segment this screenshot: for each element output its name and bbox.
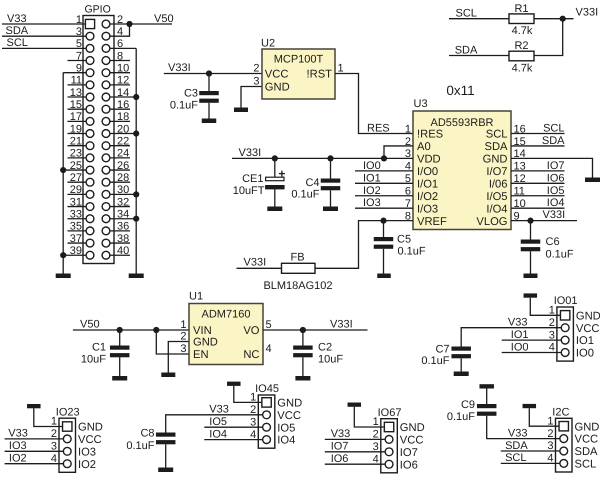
svg-text:GND: GND xyxy=(576,310,600,322)
FB designator xyxy=(290,252,304,264)
C4 designator xyxy=(305,177,319,189)
U3 pin number 5 xyxy=(405,173,411,185)
wire GPIO pin 6 to right ground bus xyxy=(106,47,136,49)
svg-text:29: 29 xyxy=(70,184,82,196)
net label SDA xyxy=(6,25,29,37)
wire IO5 from U3 xyxy=(511,195,565,197)
U1 pin name NC xyxy=(243,349,259,361)
ferrite bead FB xyxy=(282,263,316,273)
IC U3 body AD5593RBR xyxy=(413,111,511,230)
ground U3 GND xyxy=(585,178,600,183)
GPIO pin number 40 xyxy=(117,245,129,257)
svg-text:38: 38 xyxy=(117,233,129,245)
wire U2 GND to ground xyxy=(241,87,262,108)
ground U1 GND xyxy=(161,373,175,378)
net label V33 (IO01) xyxy=(508,317,528,329)
svg-text:IO2: IO2 xyxy=(363,185,381,197)
net label IO1 xyxy=(363,172,381,184)
C9 value 0.1uF xyxy=(447,411,475,423)
svg-text:4: 4 xyxy=(373,453,379,465)
wire stub GPIO pin 13 xyxy=(68,96,91,98)
U2 pin name GND xyxy=(265,82,290,94)
net label SCL (U3) xyxy=(543,123,564,135)
svg-text:7: 7 xyxy=(76,50,82,62)
IO23 pin 3 pad xyxy=(63,447,71,455)
svg-text:2: 2 xyxy=(51,428,57,440)
U1 pin number 4 xyxy=(266,343,272,355)
address label 0x11 xyxy=(446,83,474,98)
IO23 pin 1 (square pad) xyxy=(63,422,72,431)
net label SDA (I2C) xyxy=(505,440,528,452)
GPIO pin number 25 xyxy=(70,160,82,172)
svg-text:IO2: IO2 xyxy=(78,459,96,471)
GPIO pin number 16 xyxy=(117,99,129,111)
svg-text:CE1: CE1 xyxy=(242,173,263,185)
GPIO pin number 20 xyxy=(117,123,129,135)
junction EN tap xyxy=(153,327,159,333)
svg-text:VCC: VCC xyxy=(265,69,289,81)
GPIO pin number 21 xyxy=(70,136,82,148)
C1 value 10uF xyxy=(81,354,106,366)
wire V33 to IO01 pin2 and C7 xyxy=(461,328,561,347)
svg-text:GND: GND xyxy=(277,398,302,410)
IO01 pin number 3 xyxy=(549,329,555,341)
svg-text:VCC: VCC xyxy=(575,434,599,446)
svg-text:IO0: IO0 xyxy=(576,348,594,360)
U3 pin number 10 xyxy=(514,198,526,210)
svg-text:IO5: IO5 xyxy=(277,422,295,434)
svg-text:SCL: SCL xyxy=(505,452,526,464)
svg-text:4.7k: 4.7k xyxy=(512,62,533,74)
svg-text:0.1uF: 0.1uF xyxy=(546,249,574,261)
wire GPIO pin 25 to left ground bus xyxy=(63,169,90,171)
GPIO pin number 36 xyxy=(117,221,129,233)
I2C pin number 3 xyxy=(547,440,553,452)
svg-text:0x11: 0x11 xyxy=(446,83,474,98)
ground U2 GND xyxy=(234,108,248,113)
svg-text:IO4: IO4 xyxy=(547,197,565,209)
wire IO2 to U3 xyxy=(355,195,413,197)
net label IO7 (IO67) xyxy=(331,441,349,453)
GPIO pin number 18 xyxy=(117,111,129,123)
svg-text:NC: NC xyxy=(243,349,259,361)
net label IO0 xyxy=(363,160,381,172)
net label IO6 xyxy=(547,172,565,184)
wire stub GPIO pin 38 xyxy=(106,242,130,244)
svg-text:MCP100T: MCP100T xyxy=(274,54,324,66)
GPIO pin 38 pad xyxy=(102,239,110,247)
IO01 pin 2 pad xyxy=(561,324,569,332)
GPIO pin 18 pad xyxy=(102,117,110,125)
wire GPIO pin 34 to right ground bus xyxy=(106,218,136,220)
U3 pin number 12 xyxy=(514,173,526,185)
GPIO pin 4 pad xyxy=(102,32,110,40)
GPIO pin number 13 xyxy=(70,87,82,99)
wire IO4 to IO45 pin4 xyxy=(204,439,262,441)
wire V33I to FB xyxy=(237,267,282,269)
wire stub GPIO pin 35 xyxy=(68,230,91,232)
svg-text:V33I: V33I xyxy=(244,257,267,269)
svg-text:13: 13 xyxy=(70,87,82,99)
GPIO pin 3 pad xyxy=(86,32,94,40)
GPIO pin 2 pad xyxy=(102,20,110,28)
svg-text:1: 1 xyxy=(547,415,553,427)
connector IO45 body xyxy=(258,395,275,448)
junction right bus pin 20 xyxy=(133,130,139,136)
IO23 pin 4 pad xyxy=(63,460,71,468)
wire V33 to GPIO pin 1 xyxy=(2,23,90,25)
junction A0/VDD xyxy=(381,155,387,161)
C5 value 0.1uF xyxy=(398,246,426,258)
U1 pin number 3 xyxy=(180,343,186,355)
wire stub GPIO pin 21 xyxy=(68,145,91,147)
net label V33I (FB) xyxy=(244,257,267,269)
net label IO6 (IO67) xyxy=(331,453,349,465)
GPIO pin 37 pad xyxy=(86,239,94,247)
net label V33 xyxy=(7,13,27,25)
C6 designator xyxy=(546,236,560,248)
GPIO pin number 4 xyxy=(117,26,123,38)
IO67 pin number 1 xyxy=(373,416,379,428)
U1 pin name GND xyxy=(193,337,218,349)
GPIO pin 24 pad xyxy=(102,154,110,162)
wire SCL to I2C pin4 xyxy=(501,462,560,464)
net label V33I (pullups) xyxy=(576,7,599,19)
R2 value 4.7k xyxy=(512,62,533,74)
wire I2C pin1 to ground xyxy=(529,408,559,426)
supervisor U2 body xyxy=(262,49,335,99)
junction right bus pin 34 xyxy=(133,216,139,222)
IO45 pin label IO5 xyxy=(277,422,295,434)
wire IO0 to U3 xyxy=(355,170,413,172)
GPIO pin number 26 xyxy=(117,160,129,172)
svg-text:0.1uF: 0.1uF xyxy=(398,246,426,258)
I2C pin label GND xyxy=(575,421,600,433)
capacitor C5 xyxy=(374,221,394,274)
GPIO pin 23 pad xyxy=(86,154,94,162)
svg-text:9: 9 xyxy=(76,62,82,74)
GPIO pin number 37 xyxy=(70,233,82,245)
svg-text:31: 31 xyxy=(70,196,82,208)
resistor R2 xyxy=(509,51,534,61)
svg-text:U3: U3 xyxy=(414,98,428,110)
U3 pin name I/O1 xyxy=(417,178,438,190)
svg-text:3: 3 xyxy=(549,329,555,341)
GPIO pin 19 pad xyxy=(86,130,94,138)
CE1 designator xyxy=(242,173,263,185)
svg-text:VCC: VCC xyxy=(400,435,424,447)
U3 pin name I/O7 xyxy=(486,166,507,178)
IO67 pin number 2 xyxy=(373,429,379,441)
svg-text:4: 4 xyxy=(117,26,123,38)
wire stub GPIO pin 28 xyxy=(106,181,130,183)
wire IO6 to IO67 pin4 xyxy=(325,463,386,465)
svg-text:10uF: 10uF xyxy=(81,354,106,366)
net label V50 xyxy=(154,13,174,25)
GPIO pin number 3 xyxy=(76,26,82,38)
svg-text:V33I: V33I xyxy=(168,62,191,74)
IO23 pin label IO3 xyxy=(78,446,96,458)
svg-text:C4: C4 xyxy=(305,177,319,189)
IO01 pin label IO0 xyxy=(576,348,594,360)
connector I2C designator xyxy=(552,407,569,419)
svg-text:IO6: IO6 xyxy=(400,459,418,471)
wire IO1 to U3 xyxy=(355,182,413,184)
wire stub GPIO pin 18 xyxy=(106,120,130,122)
svg-text:C6: C6 xyxy=(546,236,560,248)
ground C4 xyxy=(323,207,338,212)
svg-text:IO0: IO0 xyxy=(363,160,381,172)
GPIO pin number 34 xyxy=(117,209,129,221)
U1 pin name VO xyxy=(243,325,259,337)
U3 pin name I/O2 xyxy=(417,191,438,203)
IO23 pin number 1 xyxy=(51,416,57,428)
inverted ground (IO45 pin1) xyxy=(227,382,241,386)
GPIO pin 12 pad xyxy=(102,81,110,89)
U3 pin number 2 xyxy=(405,136,411,148)
capacitor C6 xyxy=(521,221,541,274)
svg-text:1: 1 xyxy=(338,62,344,74)
wire V33I to U2 VCC xyxy=(164,73,262,75)
capacitor C4 xyxy=(321,158,341,206)
svg-text:SCL: SCL xyxy=(543,123,564,135)
svg-text:18: 18 xyxy=(117,111,129,123)
net label V33 (IO23) xyxy=(8,428,28,440)
wire IO4 from U3 xyxy=(511,207,565,209)
junction C5 tap xyxy=(380,218,386,224)
svg-text:V33: V33 xyxy=(508,317,528,329)
U2 pin number 1 xyxy=(338,62,344,74)
svg-text:8: 8 xyxy=(117,50,123,62)
GPIO pin 21 pad xyxy=(86,142,94,150)
U3 pin name I/O3 xyxy=(417,203,438,215)
wire GPIO pin 14 to right ground bus xyxy=(106,96,136,98)
svg-text:I2C: I2C xyxy=(552,407,569,419)
IO45 pin number 3 xyxy=(250,416,256,428)
C4 value 0.1uF xyxy=(291,189,319,201)
svg-text:IO5: IO5 xyxy=(209,416,227,428)
net label IO5 xyxy=(547,185,565,197)
wire stub GPIO pin 24 xyxy=(106,157,130,159)
svg-text:I/O0: I/O0 xyxy=(417,166,438,178)
IO23 pin label VCC xyxy=(78,434,102,446)
svg-text:!RST: !RST xyxy=(307,69,333,81)
IO45 pin label VCC xyxy=(277,410,301,422)
svg-text:C8: C8 xyxy=(140,428,154,440)
IO23 pin 2 pad xyxy=(63,435,71,443)
I2C pin 4 pad xyxy=(560,460,568,468)
wire EN to VIN xyxy=(156,330,189,354)
wire V33I to U3 VDD xyxy=(232,157,413,159)
CE1 plus sign xyxy=(279,171,285,177)
svg-text:VREF: VREF xyxy=(417,216,447,228)
wire IO45 pin1 to ground xyxy=(234,386,263,403)
GPIO pin 7 pad xyxy=(86,57,94,65)
GPIO pin number 14 xyxy=(117,87,129,99)
svg-text:4: 4 xyxy=(250,429,256,441)
R1 value 4.7k xyxy=(512,25,533,37)
svg-text:SCL: SCL xyxy=(575,459,597,471)
svg-text:SCL: SCL xyxy=(456,7,477,19)
IO67 pin 4 pad xyxy=(385,460,393,468)
U3 pin name I/06 xyxy=(489,178,508,190)
svg-text:10uF: 10uF xyxy=(318,354,343,366)
GPIO pin 6 pad xyxy=(102,44,110,52)
FB value BLM18AG102 xyxy=(263,280,332,292)
C8 value 0.1uF xyxy=(126,440,154,452)
GPIO pin number 32 xyxy=(117,196,129,208)
svg-text:16: 16 xyxy=(117,99,129,111)
svg-text:IO1: IO1 xyxy=(576,335,594,347)
connector IO23 body xyxy=(59,418,76,472)
GPIO pin 11 pad xyxy=(86,81,94,89)
junction C3 tap xyxy=(206,70,212,76)
capacitor C7 xyxy=(451,347,471,372)
svg-text:4: 4 xyxy=(549,342,555,354)
IO45 pin number 4 xyxy=(250,429,256,441)
GPIO pin number 35 xyxy=(70,221,82,233)
GPIO pin 9 pad xyxy=(86,69,94,77)
left ground bus wire xyxy=(62,73,64,274)
wire IO01 pin1 to ground xyxy=(530,298,561,316)
GPIO pin 13 pad xyxy=(86,93,94,101)
C3 designator xyxy=(184,88,198,100)
svg-text:V50: V50 xyxy=(154,13,174,25)
svg-text:IO4: IO4 xyxy=(209,428,227,440)
net label IO3 xyxy=(9,440,27,452)
net label V33I (VLOG) xyxy=(543,209,566,221)
wire SDA to I2C pin3 xyxy=(501,450,560,452)
svg-text:GND: GND xyxy=(483,154,508,166)
svg-text:VDD: VDD xyxy=(417,154,441,166)
inverted ground (IO67 pin1) xyxy=(348,403,362,407)
connector IO01 designator xyxy=(554,295,578,307)
C1 designator xyxy=(92,342,106,354)
U1 pin number 5 xyxy=(266,319,272,331)
GPIO pin 5 pad xyxy=(86,44,94,52)
svg-text:6: 6 xyxy=(117,38,123,50)
wire V33 to IO67 pin2 xyxy=(325,438,386,440)
GPIO pin number 6 xyxy=(117,38,123,50)
wire U3 SCL out xyxy=(511,133,565,135)
net label RES xyxy=(367,122,390,134)
svg-text:GPIO: GPIO xyxy=(85,4,111,16)
regulator U1 body ADM7160 xyxy=(189,304,263,365)
wire U1 GND to ground xyxy=(168,342,189,373)
svg-text:11: 11 xyxy=(71,75,82,87)
C8 designator xyxy=(140,428,154,440)
svg-text:IO1: IO1 xyxy=(363,172,381,184)
wire stub GPIO pin 29 xyxy=(68,193,91,195)
wire stub GPIO pin 33 xyxy=(68,218,91,220)
U3 pin name GND xyxy=(483,154,508,166)
svg-text:AD5593RBR: AD5593RBR xyxy=(431,117,494,129)
wire SCL to R1 xyxy=(449,18,509,20)
GPIO pin number 31 xyxy=(70,196,82,208)
IO01 pin 3 pad xyxy=(561,336,569,344)
GPIO pin 40 pad xyxy=(102,251,110,259)
U2 pin name !RST xyxy=(307,69,333,81)
U2 pin name VCC xyxy=(265,69,289,81)
svg-text:32: 32 xyxy=(117,196,129,208)
IO01 pin label GND xyxy=(576,310,600,322)
IO45 pin 1 (square pad) xyxy=(262,398,271,407)
svg-text:3: 3 xyxy=(250,416,256,428)
svg-text:SCL: SCL xyxy=(7,37,28,49)
IO23 pin number 3 xyxy=(51,441,57,453)
IO45 pin number 2 xyxy=(250,404,256,416)
svg-text:2: 2 xyxy=(180,330,186,342)
svg-text:3: 3 xyxy=(51,441,57,453)
svg-text:34: 34 xyxy=(117,209,129,221)
net label V33 (IO45) xyxy=(209,404,229,416)
svg-text:0.1uF: 0.1uF xyxy=(126,440,154,452)
wire V33 to IO45 pin2 and C8 xyxy=(166,415,263,433)
svg-text:3: 3 xyxy=(373,441,379,453)
svg-text:4.7k: 4.7k xyxy=(512,25,533,37)
svg-text:I/O4: I/O4 xyxy=(486,203,507,215)
GPIO pin number 23 xyxy=(70,148,82,160)
ground C5 xyxy=(377,274,391,279)
svg-text:1: 1 xyxy=(180,319,186,331)
svg-text:SDA: SDA xyxy=(484,141,508,153)
svg-text:14: 14 xyxy=(117,87,129,99)
C3 value 0.1uF xyxy=(170,100,198,112)
capacitor C1 xyxy=(110,330,130,376)
U3 pin number 11 xyxy=(514,186,525,198)
net label IO2 xyxy=(363,185,381,197)
C7 value 0.1uF xyxy=(421,355,449,367)
svg-text:12: 12 xyxy=(117,75,129,87)
svg-text:VLOG: VLOG xyxy=(476,216,507,228)
svg-text:R2: R2 xyxy=(514,40,528,52)
svg-text:C2: C2 xyxy=(318,342,332,354)
svg-text:10uFT: 10uFT xyxy=(233,185,265,197)
wire stub GPIO pin 16 xyxy=(106,108,130,110)
capacitor C3 xyxy=(199,74,219,119)
svg-text:4: 4 xyxy=(266,343,272,355)
IO67 pin 1 (square pad) xyxy=(384,422,393,431)
svg-text:IO23: IO23 xyxy=(56,406,80,418)
svg-text:27: 27 xyxy=(70,172,82,184)
IO23 pin label GND xyxy=(78,422,103,434)
svg-text:VIN: VIN xyxy=(193,325,212,337)
svg-text:17: 17 xyxy=(70,111,82,123)
svg-text:V33I: V33I xyxy=(330,319,353,331)
U3 pin number 7 xyxy=(405,198,411,210)
GPIO pin number 24 xyxy=(117,148,129,160)
IO45 pin 3 pad xyxy=(263,423,271,431)
ground left bus xyxy=(56,274,71,279)
wire IO6 from U3 xyxy=(511,182,565,184)
GPIO pin number 2 xyxy=(117,14,123,26)
svg-text:35: 35 xyxy=(70,221,82,233)
svg-text:IO7: IO7 xyxy=(547,160,565,172)
svg-text:IO0: IO0 xyxy=(511,341,529,353)
wire stub GPIO pin 23 xyxy=(68,157,91,159)
svg-text:SDA: SDA xyxy=(455,44,478,56)
I2C pin number 2 xyxy=(547,428,553,440)
U3 title AD5593RBR xyxy=(431,117,494,129)
net label IO0 (IO01) xyxy=(511,341,529,353)
U3 pin number 6 xyxy=(405,186,411,198)
GPIO pin 20 pad xyxy=(102,130,110,138)
junction C2 tap xyxy=(300,327,306,333)
wire stub GPIO pin 8 xyxy=(106,60,130,62)
I2C pin 3 pad xyxy=(560,447,568,455)
IO67 pin label GND xyxy=(400,422,425,434)
svg-text:I/06: I/06 xyxy=(489,178,508,190)
